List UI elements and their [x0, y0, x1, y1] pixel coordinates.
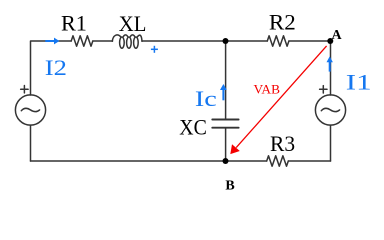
plus polarity left source	[21, 86, 28, 93]
voltage arrow VAB (red)	[230, 46, 326, 154]
current arrow I1	[327, 56, 333, 71]
node junction top middle	[223, 38, 229, 44]
AC source right	[315, 95, 345, 125]
wire left vertical lower	[30, 125, 32, 161]
svg-text:R2: R2	[269, 10, 296, 35]
wire R2 to node A	[289, 40, 331, 42]
svg-text:R1: R1	[61, 11, 87, 36]
capacitor XC	[212, 120, 238, 128]
svg-text:VAB: VAB	[254, 82, 281, 96]
AC source left	[15, 95, 45, 125]
wire middle vertical lower	[225, 128, 227, 161]
wire bottom middle segment	[31, 160, 267, 162]
plus polarity right source	[320, 86, 327, 93]
node A dot	[327, 38, 333, 44]
resistor R3	[267, 156, 289, 166]
svg-text:A: A	[332, 28, 343, 43]
inductor XL	[112, 35, 142, 48]
svg-text:XC: XC	[179, 114, 207, 139]
resistor R2	[267, 36, 289, 46]
wire XL to R2 through top junction	[142, 40, 267, 42]
wire right vertical lower	[330, 125, 332, 161]
wire R1 to XL	[93, 40, 113, 42]
wire middle vertical upper	[225, 41, 227, 119]
svg-text:I2: I2	[45, 55, 67, 80]
svg-text:XL: XL	[119, 11, 147, 36]
wire bottom right segment	[288, 160, 330, 162]
wire right vertical upper	[330, 41, 332, 95]
node B dot	[223, 158, 229, 164]
current arrow I2	[45, 38, 59, 45]
svg-text:Ic: Ic	[195, 86, 217, 111]
wire top-left segment	[31, 41, 72, 95]
resistor R1	[71, 36, 93, 46]
current arrow Ic	[220, 84, 227, 100]
svg-text:I1: I1	[346, 70, 372, 95]
svg-text:R3: R3	[270, 131, 295, 156]
svg-text:B: B	[225, 178, 234, 193]
plus polarity XL (blue)	[151, 46, 158, 53]
